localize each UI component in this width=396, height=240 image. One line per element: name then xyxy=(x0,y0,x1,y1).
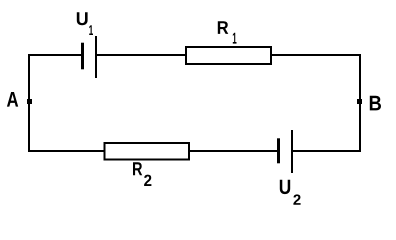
label R1 xyxy=(218,21,237,43)
node B (junction dot) xyxy=(357,99,362,104)
resistor R2 (box symbol) xyxy=(105,143,190,160)
wire: bottom-right segment (bottom-right corner to battery U2) xyxy=(293,150,362,152)
wire: top-left segment (node A branch to battery U1) xyxy=(28,54,82,56)
label B (node B name) xyxy=(370,96,381,111)
wire: top-right segment (resistor R1 to top-right corner) xyxy=(271,54,361,56)
resistor R1 (box symbol) xyxy=(186,47,271,64)
wire: left vertical segment (through node A) xyxy=(28,54,30,152)
wire: top-middle segment (battery U1 to resistor R1) xyxy=(97,54,187,56)
label U2 xyxy=(280,180,301,205)
battery U1 (short thick negative plate, long thin positive plate) xyxy=(83,36,97,78)
label A (node A name) xyxy=(7,92,18,107)
wire: bottom-middle segment (battery U2 to resistor R2) xyxy=(189,150,278,152)
wire: right vertical segment (through node B) xyxy=(359,54,361,152)
wire: bottom-left segment (resistor R2 to bottom-left corner) xyxy=(28,150,105,152)
label R2 xyxy=(133,162,151,186)
node A (junction dot) xyxy=(27,99,32,104)
label U1 xyxy=(77,12,93,35)
battery U2 (short thick negative plate, long thin positive plate) xyxy=(279,130,293,173)
